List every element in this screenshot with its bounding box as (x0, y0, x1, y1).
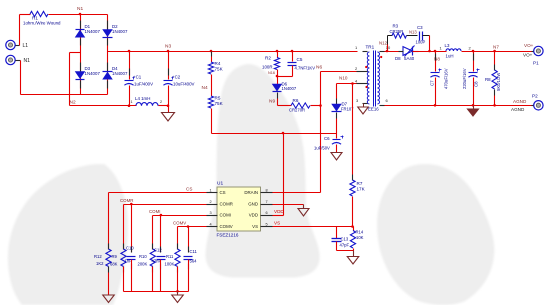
svg-text:220uF/16V: 220uF/16V (462, 68, 467, 89)
svg-text:1uH: 1uH (446, 54, 454, 59)
svg-text:1: 1 (131, 100, 133, 104)
wire VDD line (212, 132, 337, 135)
diode D4 (103, 63, 128, 89)
wire C13 R14 join (337, 250, 354, 252)
svg-text:1uF/50V: 1uF/50V (314, 146, 330, 151)
node N9 (269, 99, 275, 105)
svg-text:R5: R5 (215, 96, 221, 101)
watermark blob left (8, 164, 128, 305)
capacitor C10 (125, 246, 136, 292)
svg-text:470uF/16V: 470uF/16V (444, 68, 449, 89)
capacitor C6 (314, 134, 344, 153)
connector P1 VO+ (523, 43, 543, 66)
svg-text:CR25R: CR25R (390, 29, 404, 34)
diode D6 (272, 82, 297, 106)
svg-text:R4: R4 (215, 61, 221, 66)
resistor R1 (20, 11, 62, 25)
node N2 (70, 100, 76, 106)
svg-text:COMI: COMI (220, 213, 231, 218)
svg-text:D8: D8 (395, 56, 401, 61)
svg-text:1N4007: 1N4007 (282, 86, 297, 91)
wire DRAIN to N6 (273, 192, 321, 194)
svg-text:100R: 100R (262, 65, 273, 70)
svg-text:564: 564 (190, 259, 198, 264)
svg-text:5K0/1/2W: 5K0/1/2W (496, 73, 501, 91)
svg-text:C13: C13 (341, 237, 349, 242)
svg-text:R2: R2 (265, 56, 271, 61)
resistor R7 (350, 84, 366, 197)
svg-text:VDD: VDD (274, 209, 284, 214)
svg-text:1uF/400V: 1uF/400V (134, 82, 153, 87)
svg-text:N3: N3 (165, 44, 171, 50)
resistor R5 (208, 96, 223, 109)
ground output (468, 106, 479, 117)
svg-text:VO+: VO+ (524, 43, 534, 48)
svg-text:N1: N1 (77, 6, 83, 12)
diode D1 (75, 21, 100, 46)
svg-text:5A40: 5A40 (404, 56, 415, 61)
wire C5 to R2 node (268, 71, 293, 77)
svg-text:200K: 200K (138, 262, 148, 267)
svg-text:L4 1mH: L4 1mH (135, 96, 150, 101)
svg-text:75K: 75K (215, 67, 224, 72)
svg-text:EE16: EE16 (368, 107, 379, 112)
capacitor C11 (184, 247, 198, 292)
svg-text:R9: R9 (112, 254, 118, 259)
connector P2 AGND (511, 94, 543, 113)
svg-text:8: 8 (266, 188, 268, 192)
svg-text:3: 3 (210, 211, 212, 215)
net label COMR (120, 198, 133, 203)
svg-text:1N4007: 1N4007 (85, 71, 101, 76)
wire R7 to VS (352, 197, 354, 227)
wire C11 riser (188, 227, 190, 253)
svg-text:6: 6 (266, 211, 268, 215)
svg-text:AGND: AGND (511, 107, 525, 112)
capacitor C2 (163, 52, 194, 106)
capacitor C8 (462, 52, 480, 106)
svg-text:C8: C8 (474, 81, 479, 87)
svg-text:TR1: TR1 (366, 45, 375, 50)
svg-text:68K: 68K (110, 262, 118, 267)
resistor R10 (138, 244, 156, 292)
svg-text:C3: C3 (417, 25, 423, 30)
watermark band middle (206, 64, 320, 278)
watermark blob right (377, 164, 494, 305)
svg-text:R10: R10 (139, 254, 147, 259)
wire N1 bottom to bridge (21, 94, 108, 96)
ground C6 (331, 153, 342, 161)
capacitor C3 (407, 25, 430, 45)
svg-text:10uF/400V: 10uF/400V (173, 82, 195, 87)
ground common (172, 292, 184, 303)
resistor R2 (262, 52, 280, 70)
wire D8 cathode rail (413, 50, 447, 53)
svg-text:100P: 100P (416, 40, 426, 45)
wire R2 to D6 (277, 70, 279, 85)
wire COMV row (178, 225, 207, 249)
wire transformer pin4 (337, 82, 363, 85)
svg-text:VDD: VDD (249, 213, 258, 218)
node N3 (165, 44, 171, 50)
diode D3 (75, 63, 100, 89)
wire lower rail N2 (70, 104, 137, 107)
capacitor C7 (430, 52, 449, 106)
svg-text:2: 2 (210, 200, 212, 204)
svg-text:7: 7 (266, 200, 268, 204)
net label COMI (149, 209, 160, 214)
net label COMV (173, 221, 186, 226)
svg-text:DRAIN: DRAIN (244, 190, 258, 195)
wire L4 to ground (159, 104, 170, 112)
svg-text:R11: R11 (166, 254, 174, 259)
svg-text:1N4007: 1N4007 (112, 71, 128, 76)
wire snubber right (428, 36, 431, 53)
resistor R12 (94, 244, 111, 296)
wire R1 to bridge top (49, 14, 108, 16)
resistor R3 (388, 24, 407, 39)
diode D8 (395, 46, 419, 62)
svg-text:+C1: +C1 (133, 75, 142, 80)
svg-text:C12: C12 (154, 248, 162, 253)
wire COMR row (124, 203, 207, 250)
svg-text:4: 4 (210, 222, 212, 226)
wire bridge right column (107, 15, 109, 95)
svg-text:N10: N10 (339, 76, 348, 81)
svg-text:N4: N4 (202, 85, 208, 91)
svg-text:CS: CS (186, 187, 192, 192)
svg-text:C6: C6 (324, 136, 330, 141)
ground primary bulk (162, 113, 175, 122)
node N4 (202, 75, 212, 97)
node N6 (316, 65, 322, 71)
svg-text:N2: N2 (70, 100, 76, 106)
svg-text:COMV: COMV (173, 221, 186, 226)
svg-text:R6: R6 (293, 98, 299, 103)
resistor R9 (110, 244, 126, 292)
svg-text:COMR: COMR (220, 202, 233, 207)
wire VS row (273, 221, 354, 228)
capacitor C5 (288, 52, 316, 77)
inductor L4 (131, 96, 163, 106)
capacitor C1 (124, 52, 153, 106)
resistor R8 (485, 52, 501, 106)
ground transformer pin3 (358, 104, 369, 115)
svg-text:17K: 17K (357, 187, 366, 192)
svg-text:VS: VS (274, 221, 280, 226)
svg-text:10: 10 (386, 45, 391, 50)
net label VDD (274, 209, 284, 214)
svg-text:P2: P2 (532, 94, 538, 99)
svg-text:N1: N1 (24, 58, 31, 64)
svg-text:CS: CS (220, 190, 226, 195)
wire transformer pin2 to N6 (321, 71, 363, 73)
svg-text:N8: N8 (434, 57, 440, 62)
capacitor C12 (152, 247, 166, 292)
wire GND pin7 (273, 205, 304, 209)
capacitor C13 (332, 227, 350, 251)
wire L3 to VO (462, 50, 532, 53)
node N8 (434, 57, 440, 62)
svg-text:L3: L3 (445, 43, 450, 48)
svg-text:10K: 10K (356, 235, 364, 240)
wire snubber left (386, 36, 389, 53)
svg-text:C10: C10 (126, 246, 134, 251)
resistor R4 (208, 52, 223, 75)
svg-text:2: 2 (160, 100, 162, 104)
wire main rail N3 (108, 50, 358, 53)
svg-text:COMV: COMV (220, 224, 233, 229)
wire C10 riser (131, 205, 133, 253)
wire secondary top (385, 51, 404, 53)
ground IC pin7 (298, 209, 309, 217)
svg-text:1ohm./Wire Wound: 1ohm./Wire Wound (23, 21, 61, 26)
node N1 top (77, 6, 83, 15)
svg-text:4.7NF/1KV: 4.7NF/1KV (295, 66, 316, 71)
wire N6 drain column (320, 72, 322, 193)
wire bottom common rail (124, 290, 189, 293)
svg-text:+C2: +C2 (172, 75, 181, 80)
net label CS (186, 187, 192, 192)
svg-text:R3: R3 (393, 24, 399, 29)
svg-text:GND: GND (248, 202, 258, 207)
svg-text:N9: N9 (269, 99, 275, 105)
diode D7 (332, 84, 355, 134)
wire CS row (109, 193, 207, 250)
svg-text:1K2: 1K2 (96, 261, 104, 266)
svg-text:P1: P1 (533, 61, 539, 66)
wire N1 down (16, 61, 21, 95)
svg-text:R14: R14 (356, 230, 364, 235)
diode D2 (103, 21, 128, 46)
svg-text:N13: N13 (409, 30, 417, 35)
transformer TR1 (355, 45, 391, 112)
resistor R14 (350, 227, 363, 251)
svg-text:AGND: AGND (513, 99, 527, 104)
resistor R11 (165, 244, 181, 292)
svg-text:U1: U1 (217, 181, 223, 187)
node N10 (339, 76, 348, 81)
wire bridge mid-left to N2 (70, 53, 81, 106)
svg-text:R12: R12 (94, 254, 102, 259)
svg-text:1N4007: 1N4007 (112, 29, 128, 34)
wire COMI row (153, 214, 207, 250)
op-amp U1 controller FSEZ1216 (207, 181, 273, 238)
resistor R6 (278, 98, 322, 113)
svg-text:100K: 100K (165, 262, 175, 267)
svg-text:L1: L1 (23, 43, 29, 49)
svg-text:C11: C11 (190, 249, 198, 254)
svg-text:R7: R7 (357, 181, 363, 186)
wire R5 to VDD line (211, 109, 213, 134)
ground VS filter (347, 251, 359, 265)
svg-text:1: 1 (210, 188, 212, 192)
svg-text:FSEZ1216: FSEZ1216 (217, 233, 239, 238)
wire bridge left column (80, 15, 82, 95)
svg-text:R8: R8 (485, 77, 491, 82)
svg-text:N6: N6 (316, 65, 322, 71)
svg-text:C5: C5 (297, 57, 303, 62)
svg-text:VO+: VO+ (523, 53, 533, 58)
svg-text:N12: N12 (379, 41, 388, 46)
node N7 (493, 45, 499, 50)
net label N12 (379, 41, 388, 46)
svg-text:75K: 75K (215, 101, 224, 106)
svg-text:N7: N7 (493, 45, 499, 50)
connector L1 (6, 40, 28, 49)
wire VDD drop (273, 134, 284, 216)
svg-text:1N4007: 1N4007 (85, 29, 101, 34)
wire L1 to R1 (16, 15, 20, 46)
svg-text:C7: C7 (430, 80, 435, 86)
svg-text:47pF: 47pF (340, 243, 350, 248)
svg-text:COMI: COMI (149, 209, 160, 214)
svg-text:CR270R: CR270R (289, 108, 305, 113)
svg-text:5: 5 (266, 222, 268, 226)
inductor L3 (440, 43, 472, 59)
connector N1 (6, 55, 30, 64)
wire C12 riser (160, 216, 162, 253)
svg-text:VS: VS (252, 224, 258, 229)
svg-text:N16: N16 (268, 71, 275, 75)
svg-text:COMR: COMR (120, 198, 133, 203)
wire secondary bottom rail (385, 104, 532, 107)
ground R12 (103, 295, 115, 303)
